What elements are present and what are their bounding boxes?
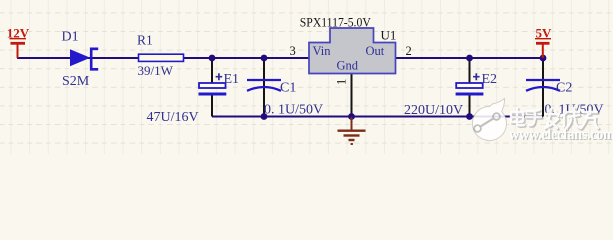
svg-text:E1: E1 <box>224 72 240 87</box>
svg-text:D1: D1 <box>62 30 79 45</box>
svg-text:47U/16V: 47U/16V <box>147 110 199 125</box>
svg-text:12V: 12V <box>7 25 30 40</box>
svg-text:220U/10V: 220U/10V <box>404 103 463 118</box>
svg-text:39/1W: 39/1W <box>138 63 174 78</box>
svg-text:Vin: Vin <box>313 44 332 58</box>
svg-text:Gnd: Gnd <box>337 59 359 73</box>
svg-text:1: 1 <box>335 79 349 85</box>
svg-text:www.elecfans.com: www.elecfans.com <box>509 127 613 143</box>
svg-text:E2: E2 <box>482 72 498 87</box>
svg-text:Out: Out <box>366 44 385 58</box>
svg-text:R1: R1 <box>137 32 153 47</box>
svg-text:3: 3 <box>290 44 296 58</box>
svg-text:C2: C2 <box>556 80 572 95</box>
svg-text:SPX1117-5.0V: SPX1117-5.0V <box>300 15 371 29</box>
svg-text:C1: C1 <box>280 81 296 96</box>
svg-text:U1: U1 <box>381 27 397 42</box>
svg-text:S2M: S2M <box>62 74 90 89</box>
svg-text:5V: 5V <box>536 25 553 40</box>
svg-text:0. 1U/50V: 0. 1U/50V <box>264 103 323 118</box>
svg-text:2: 2 <box>406 44 412 58</box>
